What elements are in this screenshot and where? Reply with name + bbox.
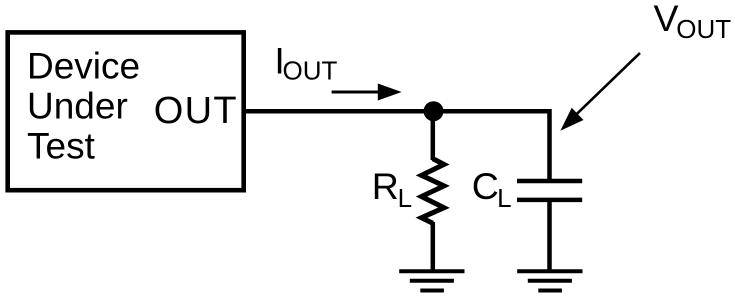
arrow VOUT (560, 53, 640, 131)
label VOUT (654, 0, 732, 44)
svg-text:OUT: OUT (283, 55, 338, 85)
svg-text:C: C (472, 165, 499, 207)
junction node (424, 101, 444, 121)
svg-text:R: R (372, 165, 399, 207)
svg-text:V: V (654, 0, 679, 39)
device under test box (8, 32, 244, 190)
text Device Under Test (27, 45, 140, 166)
resistor RL (422, 159, 445, 224)
wire RL to ground (431, 222, 436, 271)
ground (RL) (399, 271, 464, 290)
svg-text:Test: Test (27, 125, 96, 166)
svg-text:Under: Under (27, 85, 128, 126)
wire OUT to node (243, 109, 434, 114)
wire node to CL (434, 111, 550, 181)
svg-text:L: L (497, 183, 511, 213)
svg-text:OUT: OUT (154, 90, 238, 132)
current label IOUT (274, 40, 337, 86)
svg-text:L: L (398, 183, 412, 213)
current arrow IOUT (332, 84, 402, 101)
ground (CL) (517, 271, 582, 290)
label RL (372, 165, 412, 213)
svg-text:Device: Device (27, 45, 140, 86)
svg-text:OUT: OUT (676, 14, 731, 44)
label CL (472, 165, 512, 213)
capacitor CL (517, 181, 582, 200)
wire CL to ground (547, 200, 552, 271)
wire node to RL (431, 111, 436, 160)
